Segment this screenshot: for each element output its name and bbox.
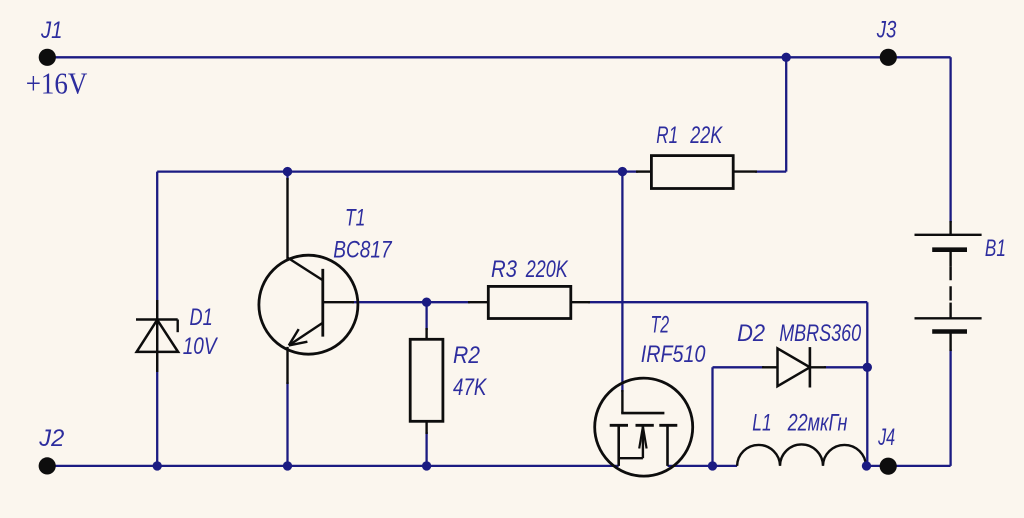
svg-text:R1: R1 [656, 122, 678, 149]
svg-text:BC817: BC817 [333, 236, 393, 263]
wire R3 right to feedback corner [588, 301, 867, 303]
svg-text:T1: T1 [345, 204, 365, 231]
svg-text:B1: B1 [985, 235, 1006, 262]
battery B1 [915, 221, 982, 351]
transistor T1 [259, 178, 358, 384]
resistor R3 [468, 286, 590, 318]
svg-text:R3: R3 [491, 256, 518, 283]
wire right vertical down to battery top [949, 57, 951, 222]
svg-text:MBRS360: MBRS360 [779, 320, 861, 347]
svg-text:22K: 22K [690, 122, 723, 149]
svg-text:L1: L1 [752, 410, 771, 437]
wire T1 emitter to bottom rail [286, 382, 288, 466]
wire base node horizontal [352, 301, 470, 303]
node R1 left junction [618, 167, 627, 176]
wire T1 collector stub [286, 172, 288, 180]
node drain L1 D2 junction [708, 461, 717, 470]
wire D2 cathode horizontal [824, 366, 867, 368]
svg-text:T2: T2 [651, 312, 670, 339]
wire feedback vertical to J4 node [866, 302, 868, 466]
node R1 top junction [782, 53, 791, 62]
inductor L1 [737, 444, 866, 465]
terminal J4 [880, 458, 897, 475]
node emitter bottom junction [283, 461, 292, 470]
wire left vertical [156, 172, 158, 466]
wire R1 right lead [755, 170, 786, 172]
svg-text:J4: J4 [877, 424, 895, 451]
wire D2 anode horizontal [713, 366, 765, 368]
zener diode D1 [136, 300, 178, 372]
resistor R2 [410, 328, 443, 434]
svg-text:+16V: +16V [26, 66, 88, 101]
wire bottom rail right of T2 [668, 465, 738, 467]
node collector junction [283, 167, 292, 176]
node L1 right junction [862, 461, 871, 470]
wire R2 top lead [425, 302, 427, 330]
svg-text:D2: D2 [737, 320, 765, 347]
terminal J3 [880, 49, 897, 66]
svg-text:R2: R2 [453, 342, 480, 369]
svg-text:D1: D1 [190, 304, 213, 331]
MOSFET T2 [595, 378, 693, 476]
wire D2 anode vertical [711, 367, 713, 466]
svg-text:J2: J2 [38, 425, 64, 452]
resistor R1 [636, 156, 757, 189]
wire bottom rail left [47, 465, 619, 467]
svg-text:220K: 220K [525, 256, 568, 283]
node D2 cathode junction [863, 363, 872, 372]
wire R1 right vertical up [785, 57, 787, 171]
svg-text:IRF510: IRF510 [641, 341, 706, 368]
wire upper-left horizontal rail [157, 170, 622, 172]
node base junction [422, 298, 431, 307]
wire R1 left lead [622, 170, 638, 172]
wire R2 bottom lead [425, 432, 427, 466]
diode D2 [762, 347, 826, 387]
node R2 bottom junction [422, 461, 431, 470]
svg-text:J3: J3 [876, 17, 897, 44]
wire battery bottom down to bottom rail [949, 350, 951, 466]
terminal J2 [39, 457, 56, 474]
wire gate vertical [621, 172, 623, 392]
wire top rail J1 to right corner [47, 56, 950, 58]
svg-text:47K: 47K [453, 374, 487, 401]
svg-text:22мкГн: 22мкГн [787, 410, 848, 437]
node D1 bottom junction [153, 461, 162, 470]
terminal J1 [39, 49, 56, 66]
svg-text:J1: J1 [40, 17, 62, 44]
wire bottom right horizontal [867, 465, 951, 467]
svg-text:10V: 10V [183, 333, 218, 360]
